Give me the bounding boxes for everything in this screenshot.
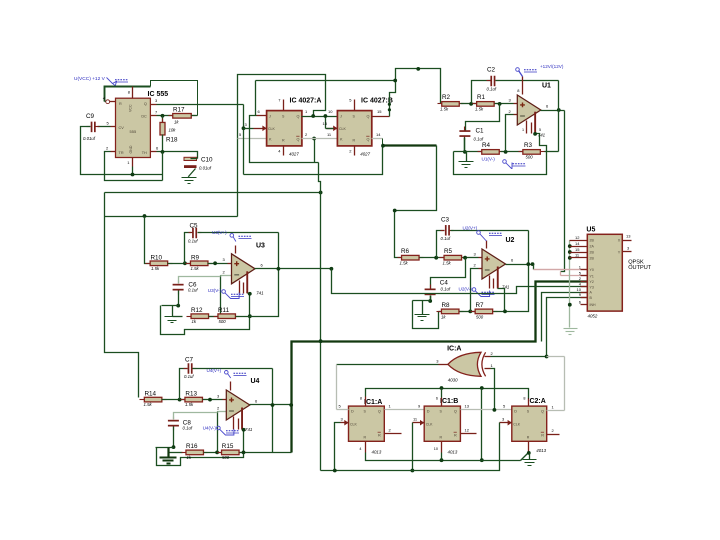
svg-text:Q: Q: [454, 410, 457, 414]
node C3 left junction: [434, 256, 438, 260]
IC4027B pin Q stub: [372, 116, 390, 118]
U1 offset pins: [526, 121, 528, 134]
XOR input 1 stub: [485, 368, 491, 370]
wire R10 to R9: [168, 263, 191, 265]
U2 offset pins: [489, 276, 491, 289]
IC4027B pin R stub: [354, 146, 356, 156]
svg-text:500: 500: [526, 155, 534, 160]
IC1B pin Q stub: [461, 409, 512, 411]
svg-text:J: J: [340, 115, 342, 119]
svg-text:IC2:A: IC2:A: [528, 398, 546, 405]
wire U4 box bottom: [157, 430, 244, 466]
svg-text:4027: 4027: [289, 152, 299, 157]
wire S set net across flip-flops: [366, 389, 529, 399]
node U3 output junction: [277, 267, 281, 271]
node y210 junction: [393, 209, 397, 213]
U5 pin Y output stub: [623, 251, 632, 253]
svg-text:1.5k: 1.5k: [400, 260, 409, 265]
IC2A pin Qbar stub: [547, 434, 560, 436]
U1 output wire: [541, 110, 565, 112]
svg-text:R: R: [364, 435, 367, 439]
svg-text:5: 5: [539, 128, 541, 132]
U5 pin B stub: [581, 297, 588, 299]
svg-text:R4: R4: [482, 142, 491, 149]
IC1A pin D stub: [337, 409, 349, 411]
power flag U1 V+: [516, 68, 520, 72]
wire VCC to R17 right: [151, 81, 198, 116]
IC555 pin 5 stub: [111, 126, 116, 128]
capacitor C7 feedback: [180, 369, 188, 400]
wire R18 bottom to TH row: [162, 135, 164, 152]
wire C9 left to bottom rail: [81, 127, 163, 175]
svg-text:U1: U1: [542, 83, 551, 90]
node TH R18 junction: [161, 150, 165, 154]
node INH X1 junction: [568, 244, 572, 248]
node pin1 rail junction: [131, 173, 135, 177]
svg-text:C1: C1: [476, 128, 485, 135]
svg-text:4013: 4013: [536, 448, 546, 453]
U5 pin Y2 stub: [581, 281, 588, 283]
wire R14 to R13: [162, 399, 185, 401]
svg-text:Y3: Y3: [590, 285, 594, 289]
node C1 ground junction: [463, 150, 467, 154]
svg-text:2A: 2A: [590, 245, 595, 249]
wire XOR in1 down to D3 net: [491, 369, 495, 411]
svg-text:CLK: CLK: [268, 127, 275, 131]
U5 pin Y1 stub: [581, 275, 588, 277]
wire C10 to ground diagonal: [189, 169, 196, 177]
IC555 pin 3 output stub: [151, 104, 157, 106]
U2 power pin: [486, 241, 488, 249]
wire R4 to R3: [501, 151, 524, 153]
IC 4027:B body: [337, 111, 371, 146]
IC4027B pin CLK stub: [333, 126, 337, 132]
wire XOR in2 to B net: [491, 356, 547, 358]
svg-text:CLK: CLK: [339, 127, 346, 131]
U5 pin X0 stub: [570, 240, 588, 242]
wire junction down to C4: [431, 258, 466, 289]
wire U2 offset to R7 node: [498, 289, 505, 312]
IC4027A pin R stub: [283, 146, 285, 156]
wire C8 bottom to ground rail: [173, 427, 175, 448]
svg-text:Q: Q: [297, 138, 300, 142]
svg-text:U2(V+): U2(V+): [463, 226, 478, 231]
wire J_A feedback up to QAbar: [314, 139, 316, 163]
svg-text:GND: GND: [129, 145, 133, 153]
node S net FF2 junction: [440, 386, 444, 390]
node S net mid junction: [480, 386, 484, 390]
wire pin7 to R17 and R18: [157, 115, 173, 117]
U4 output wire: [250, 404, 292, 406]
svg-text:U3: U3: [256, 242, 265, 249]
svg-text:1.5k: 1.5k: [443, 260, 452, 265]
svg-text:R: R: [119, 102, 122, 106]
svg-text:12: 12: [575, 235, 580, 240]
ground U4 thick: [167, 448, 169, 458]
wire mid vertical jog: [319, 163, 321, 471]
svg-text:0.01uf: 0.01uf: [199, 166, 212, 171]
wire R11 right to output box: [236, 233, 279, 317]
IC1B pin R stub: [441, 442, 443, 453]
svg-text:R3: R3: [524, 142, 533, 149]
svg-text:15: 15: [575, 247, 580, 252]
svg-text:Q: Q: [367, 115, 370, 119]
svg-text:741: 741: [245, 427, 253, 432]
IC1A pin S stub: [365, 397, 367, 407]
svg-text:IC1:B: IC1:B: [440, 398, 458, 405]
svg-text:U2(V-): U2(V-): [459, 287, 473, 292]
node XOR in2 junction: [545, 355, 549, 359]
U5 pin X2 stub: [570, 252, 588, 254]
svg-text:IC 555: IC 555: [148, 91, 169, 98]
node INH X2 junction: [568, 250, 572, 254]
IC1A pin Q stub: [385, 409, 425, 411]
svg-text:C2: C2: [487, 67, 496, 74]
ground U2: [422, 301, 424, 315]
wire R7 right to output box: [494, 231, 529, 312]
wire R16 to R15: [204, 452, 221, 454]
wire INH pale net: [569, 241, 571, 328]
IC555 pin 2 stub: [111, 151, 116, 153]
svg-text:14: 14: [575, 241, 580, 246]
svg-text:D: D: [427, 410, 430, 414]
svg-text:R: R: [378, 433, 381, 437]
IC1A pin R stub: [365, 442, 367, 453]
wire C10 top lead: [191, 158, 198, 160]
wire R17 right lead: [192, 115, 198, 117]
svg-text:R17: R17: [173, 107, 185, 114]
node CLK1 rail junction: [333, 469, 337, 473]
svg-text:U4(V-): U4(V-): [203, 426, 217, 431]
IC U6 555 timer body: [116, 98, 151, 157]
node R15 null junction: [242, 451, 246, 455]
wire CLK_A green: [244, 128, 254, 130]
svg-text:0.1uf: 0.1uf: [188, 288, 198, 293]
wire CLK_B green: [326, 128, 334, 130]
svg-text:R5: R5: [444, 248, 453, 255]
IC555 pin 4 reset bubble and wire: [106, 100, 110, 104]
IC 4027:A body: [267, 111, 302, 146]
svg-text:R15: R15: [222, 443, 234, 450]
U5 pin Y0 stub: [581, 269, 588, 271]
XOR input 2 stub: [485, 356, 491, 358]
svg-text:0.01uf: 0.01uf: [83, 136, 96, 141]
svg-text:10k: 10k: [169, 128, 177, 133]
svg-text:R: R: [541, 433, 544, 437]
svg-text:Q: Q: [378, 410, 381, 414]
svg-text:8: 8: [360, 397, 362, 401]
wire CLK_A drop from 555 output: [243, 105, 245, 175]
wire pin2 to lower rail: [105, 152, 163, 181]
wire CLK1 to clock rail: [335, 423, 341, 471]
svg-text:J: J: [269, 115, 271, 119]
node QB vertical blob 1: [388, 103, 391, 106]
IC2:A 4013 flip-flop body: [512, 406, 547, 441]
svg-text:4027: 4027: [360, 152, 370, 157]
svg-text:C4: C4: [440, 280, 449, 287]
svg-text:VCC: VCC: [129, 104, 133, 112]
svg-text:R2: R2: [442, 94, 451, 101]
wire R1 to plus input: [495, 103, 514, 105]
IC1A pin Qbar stub: [385, 433, 402, 435]
svg-text:R7: R7: [476, 302, 485, 309]
svg-text:X: X: [618, 239, 621, 243]
U5 pin X output stub: [623, 240, 632, 242]
svg-text:IC 4027:A: IC 4027:A: [290, 98, 322, 105]
svg-text:0.1uf: 0.1uf: [184, 374, 194, 379]
svg-text:D: D: [514, 410, 517, 414]
svg-text:0.1uf: 0.1uf: [474, 137, 484, 142]
wire U4 minus net: [218, 411, 227, 413]
IC1B pin S stub: [441, 398, 443, 407]
svg-text:555: 555: [130, 129, 137, 134]
IC4027B pin S stub: [354, 100, 356, 111]
wire pin1 to rail: [132, 167, 134, 175]
wire R3 right to output riser: [545, 151, 559, 153]
svg-text:0.1uf: 0.1uf: [188, 238, 198, 243]
svg-text:4013: 4013: [372, 449, 382, 454]
ground IC555 C10: [188, 177, 190, 178]
IC2A pin Q stub: [547, 410, 565, 412]
node R5 junction: [463, 256, 467, 260]
U5 pin Y3 stub: [581, 286, 588, 288]
wire Y3 from U3: [332, 269, 588, 294]
svg-text:R: R: [527, 435, 530, 439]
node QBbar feed junction: [381, 144, 385, 148]
node U4 output junction: [271, 403, 275, 407]
node R1 output junction: [498, 102, 502, 106]
wire U1 box bottom: [454, 152, 547, 175]
svg-text:1.5k: 1.5k: [191, 266, 200, 271]
U5 pin X3 stub: [570, 257, 588, 259]
svg-text:C7: C7: [185, 357, 194, 364]
U2 output wire: [506, 264, 534, 266]
U5 pin A stub: [581, 292, 588, 294]
svg-text:500: 500: [219, 319, 227, 324]
svg-text:4030: 4030: [448, 378, 458, 383]
svg-text:10: 10: [577, 287, 582, 292]
svg-text:14: 14: [376, 132, 381, 137]
svg-text:8: 8: [523, 397, 525, 401]
IC1B pin Qbar stub: [461, 433, 477, 435]
node Q_A junction 1: [311, 114, 315, 118]
wire U2 box bottom: [413, 301, 439, 329]
svg-text:R1: R1: [477, 94, 486, 101]
node R16 R15 junction: [215, 451, 219, 455]
IC2A pin CLK stub: [508, 420, 512, 426]
wire CLK2 to clock rail: [412, 423, 414, 471]
wire box top around 4027A: [238, 75, 326, 217]
wire U3 minus net: [221, 275, 232, 277]
U1 power pin 8: [522, 77, 524, 95]
IC555 pin 7 stub: [151, 115, 157, 117]
node INH X3 junction: [568, 256, 572, 260]
svg-text:2B: 2B: [590, 251, 595, 255]
node R12 R11 junction: [219, 314, 223, 318]
wire Q_B up to top runs: [390, 69, 441, 117]
svg-text:U4: U4: [251, 378, 260, 385]
svg-text:0.1uf: 0.1uf: [487, 87, 497, 92]
svg-text:U(VCC) +12 V: U(VCC) +12 V: [74, 76, 106, 82]
node U1 output junction: [557, 108, 561, 112]
wire minus input feed: [506, 115, 514, 152]
wire U1 box right from C2: [558, 81, 560, 111]
svg-text:2B: 2B: [590, 256, 595, 260]
node C2 left junction: [469, 102, 473, 106]
svg-text:IC:A: IC:A: [447, 345, 461, 352]
svg-text:13: 13: [465, 404, 470, 409]
node R9 junction: [213, 261, 217, 265]
IC555 pin 6 stub: [151, 151, 157, 153]
node Q_B top junction: [416, 67, 420, 71]
wire U3 ground rail: [162, 305, 179, 307]
node A select junction: [319, 339, 323, 343]
wire U3 box bottom: [161, 294, 250, 335]
wire R9 to plus input: [208, 263, 228, 265]
svg-text:Y0: Y0: [590, 268, 594, 272]
svg-text:500: 500: [476, 314, 484, 319]
node reset rail junction: [480, 458, 484, 462]
svg-text:R16: R16: [186, 443, 198, 450]
IC1B pin CLK stub: [420, 420, 424, 426]
IC1A pin CLK stub: [344, 420, 348, 426]
svg-text:R8: R8: [442, 302, 451, 309]
U4 power pin: [230, 382, 232, 391]
svg-text:U5: U5: [586, 227, 595, 234]
node U2 output junction: [526, 262, 530, 266]
wire C1 bottom to ground rail: [464, 138, 466, 152]
svg-text:1.5k: 1.5k: [475, 107, 484, 112]
node CLK2 rail junction: [411, 469, 415, 473]
wire U2 ground rail: [413, 300, 431, 302]
capacitor C5 feedback: [185, 233, 192, 264]
svg-text:R12: R12: [191, 307, 203, 314]
svg-text:R: R: [282, 139, 285, 143]
U4 offset pins: [233, 417, 235, 430]
wire U4 ground rail: [156, 447, 174, 449]
svg-text:12: 12: [465, 427, 470, 432]
svg-text:R13: R13: [185, 390, 197, 397]
svg-text:U2: U2: [506, 237, 515, 244]
node C7 left junction: [178, 398, 182, 402]
svg-text:Q: Q: [367, 138, 370, 142]
IC1:B 4013 flip-flop body: [424, 406, 460, 441]
wire R2 to R1: [461, 103, 477, 105]
wire in2 gray to Q3: [547, 356, 565, 358]
svg-text:U4(V+): U4(V+): [207, 368, 222, 373]
IC1:A 4013 flip-flop body: [349, 406, 385, 441]
U5 pin INH stub: [581, 304, 588, 306]
svg-text:741: 741: [256, 291, 264, 296]
svg-text:4: 4: [359, 447, 361, 451]
XOR output stub: [439, 364, 449, 366]
wire L5 drop to J_A: [255, 81, 257, 116]
node L5 terminus: [393, 79, 397, 83]
svg-text:R10: R10: [151, 254, 163, 261]
node pin7 junction: [161, 114, 165, 118]
wire R12 left lead to ground: [173, 316, 183, 318]
svg-text:CLK: CLK: [513, 422, 520, 426]
svg-text:Y: Y: [618, 250, 621, 254]
IC555 pin 8 stub: [132, 87, 134, 99]
svg-text:13: 13: [323, 121, 328, 126]
IC4027B pin QBar stub gray: [372, 138, 383, 140]
node offset junction: [533, 132, 537, 136]
svg-text:Y2: Y2: [590, 280, 594, 284]
ground U3: [172, 306, 174, 317]
wire U2 minus feed: [471, 269, 479, 312]
node FF3 reset junction: [527, 451, 531, 455]
svg-text:R: R: [440, 435, 443, 439]
svg-text:R6: R6: [401, 248, 410, 255]
svg-text:1.5k: 1.5k: [185, 402, 194, 407]
U3 power pin: [235, 246, 237, 254]
node INH pin junction: [568, 303, 572, 307]
svg-text:IC1:A: IC1:A: [364, 399, 382, 406]
wire offset to R3 right: [536, 134, 547, 152]
IC2A pin S stub: [528, 399, 530, 407]
wire CLK_A staircase to QB-bar: [244, 146, 383, 175]
wire L5 from 4027 box to QB vertical: [256, 80, 396, 82]
wire B select from XOR net: [547, 298, 588, 357]
ground U1: [466, 152, 468, 162]
ground FF3: [529, 454, 531, 460]
svg-text:+12V/(12V): +12V/(12V): [540, 64, 564, 69]
U3 offset pins: [239, 281, 241, 294]
svg-text:CV: CV: [119, 126, 125, 130]
svg-text:R: R: [353, 139, 356, 143]
svg-text:TR: TR: [119, 151, 124, 155]
svg-text:1.5k: 1.5k: [440, 107, 449, 112]
wire R8 to R7: [460, 311, 475, 313]
wire VCC rail to IC555 pin 8: [105, 87, 151, 102]
svg-text:13: 13: [626, 234, 631, 239]
IC4027A pin CLK stub: [262, 126, 266, 132]
IC2A pin R stub: [528, 442, 530, 453]
wire R15 right to output box: [240, 452, 292, 454]
wire C6 bottom to ground rail: [178, 291, 180, 306]
svg-text:1.5k: 1.5k: [151, 266, 160, 271]
wire CLK_B riser from Q_A: [325, 117, 327, 129]
wire R6 to R5: [420, 257, 444, 259]
node C6 ground junction: [176, 304, 180, 308]
U3 output wire: [255, 268, 332, 270]
wire U4 box right vertical: [272, 369, 274, 453]
wire FF2 S stub drop: [441, 389, 443, 398]
node QAbar junction: [312, 137, 316, 141]
svg-text:R9: R9: [191, 254, 200, 261]
U5 pin X1 stub: [570, 246, 588, 248]
wire R16 left lead to ground: [170, 452, 183, 454]
svg-text:U3(V+): U3(V+): [212, 230, 227, 235]
svg-text:4052: 4052: [588, 314, 598, 319]
IC U5 4052 body: [587, 234, 622, 311]
svg-text:TH: TH: [142, 151, 147, 155]
svg-text:CLK: CLK: [426, 422, 433, 426]
wire Y2 thick from U4: [292, 282, 588, 453]
node R10 feed junction: [143, 214, 147, 218]
wire R13 to plus input: [203, 399, 223, 401]
svg-text:INH: INH: [590, 303, 597, 307]
wire C6 top pale to minus net: [179, 277, 221, 284]
node R13 junction: [208, 398, 212, 402]
wire U3 offset to R11 node: [248, 293, 250, 295]
node R4 R3 junction: [504, 150, 508, 154]
IC4027A pin S stub: [283, 100, 285, 111]
wire reset rail diagonal to FF3 ground: [521, 453, 529, 461]
wire IC555 pin3 output long run: [157, 104, 244, 106]
capacitor C10: [184, 157, 197, 160]
